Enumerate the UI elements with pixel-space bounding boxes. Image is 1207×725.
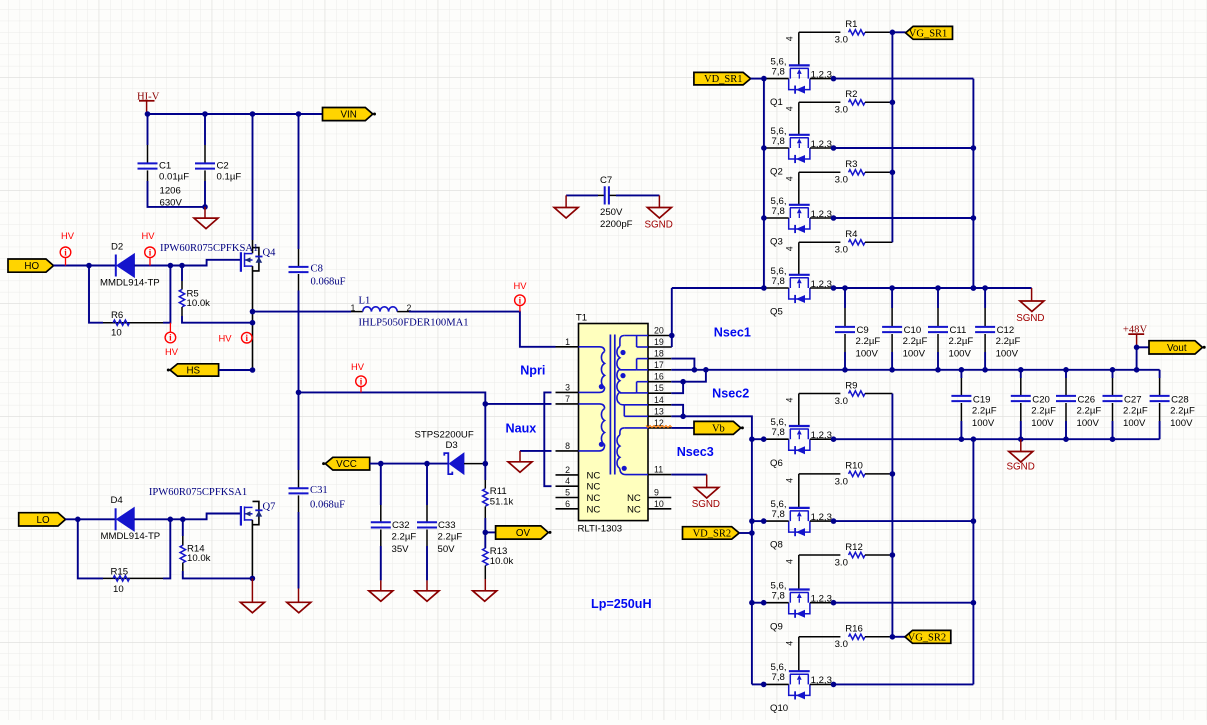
transistor Q2 bbox=[764, 126, 834, 178]
node Q7 gate junctions bbox=[168, 517, 186, 523]
wire Q3 gate pin bbox=[785, 172, 799, 205]
svg-text:4: 4 bbox=[785, 478, 795, 483]
svg-text:NC: NC bbox=[587, 482, 601, 493]
capacitor C31 bbox=[289, 392, 346, 588]
ground on T1 pin8 bbox=[508, 451, 532, 472]
wire VG_SR1 gate bus bbox=[891, 32, 893, 242]
probe HV on pin3 wire bbox=[351, 361, 366, 392]
svg-text:10.0k: 10.0k bbox=[187, 553, 211, 564]
resistor R6 bbox=[89, 266, 170, 339]
capacitor C27 bbox=[1103, 370, 1148, 439]
svg-text:LO: LO bbox=[37, 515, 50, 526]
transistor Q6 bbox=[764, 417, 834, 469]
ground left of C7 bbox=[554, 195, 578, 218]
node SW junctions bbox=[250, 309, 256, 373]
svg-text:0.1µF: 0.1µF bbox=[217, 172, 242, 183]
wire D4 to Q7 gate bbox=[134, 514, 241, 520]
ground below C31 bbox=[287, 589, 311, 613]
svg-text:4: 4 bbox=[565, 476, 570, 486]
wire SW to L1 bbox=[253, 311, 352, 313]
svg-text:2.2µF: 2.2µF bbox=[392, 531, 417, 542]
probe HV on L1 wire bbox=[514, 280, 528, 312]
capacitor C10 bbox=[882, 288, 927, 370]
svg-text:D3: D3 bbox=[446, 440, 458, 451]
svg-text:Q8: Q8 bbox=[770, 540, 783, 551]
svg-text:3: 3 bbox=[565, 382, 570, 392]
svg-text:10: 10 bbox=[654, 499, 664, 509]
T1 pins left bbox=[556, 337, 579, 509]
wire Q5 drain to pin20 bbox=[672, 287, 764, 289]
svg-text:SGND: SGND bbox=[645, 220, 673, 231]
port OV bbox=[485, 526, 551, 539]
node VD_SR2 bus junctions bbox=[749, 436, 755, 605]
wire Q8 gate pin bbox=[785, 474, 799, 508]
capacitor C2 bbox=[195, 114, 241, 207]
svg-text:STPS2200UF: STPS2200UF bbox=[415, 429, 474, 440]
resistor R10 bbox=[799, 461, 893, 488]
svg-text:HV: HV bbox=[142, 230, 156, 241]
capacitor C32 bbox=[371, 464, 417, 581]
svg-text:7,8: 7,8 bbox=[772, 276, 785, 287]
port VCC bbox=[322, 457, 370, 470]
wire Q3 source bbox=[834, 217, 974, 219]
svg-text:100V: 100V bbox=[996, 348, 1019, 359]
svg-text:1,2,3: 1,2,3 bbox=[811, 512, 832, 523]
svg-text:1,2,3: 1,2,3 bbox=[811, 279, 832, 290]
wire Q2 gate pin bbox=[785, 102, 799, 135]
node D3 anode junction bbox=[483, 461, 489, 467]
svg-text:9: 9 bbox=[654, 488, 659, 498]
svg-text:C19: C19 bbox=[973, 395, 991, 406]
wire Q1 gate pin bbox=[785, 32, 799, 65]
ground below C33 bbox=[415, 580, 439, 601]
wire pin13 to VD_SR2 bus bbox=[671, 416, 752, 684]
svg-text:Q10: Q10 bbox=[770, 703, 788, 714]
svg-text:R2: R2 bbox=[845, 89, 857, 100]
svg-text:19: 19 bbox=[654, 337, 664, 347]
svg-text:VIN: VIN bbox=[340, 109, 356, 120]
svg-text:HV: HV bbox=[165, 346, 179, 357]
svg-text:C8: C8 bbox=[311, 264, 323, 275]
svg-text:NC: NC bbox=[627, 493, 641, 504]
port VG_SR1 bbox=[892, 26, 952, 39]
svg-text:HO: HO bbox=[24, 261, 39, 272]
node LO junction bbox=[75, 517, 81, 523]
svg-text:Q1: Q1 bbox=[770, 97, 783, 108]
svg-text:C32: C32 bbox=[392, 520, 410, 531]
svg-text:10: 10 bbox=[111, 327, 122, 338]
svg-text:100V: 100V bbox=[1077, 418, 1100, 429]
svg-text:3.0: 3.0 bbox=[835, 105, 848, 116]
wire VG_SR2 gate bus bbox=[891, 394, 893, 637]
wire D3 to R11 column bbox=[484, 404, 486, 480]
svg-text:HS: HS bbox=[186, 365, 200, 376]
svg-text:5: 5 bbox=[565, 488, 570, 498]
transformer T1 body bbox=[576, 312, 648, 534]
wire HO to D2 bbox=[54, 265, 116, 267]
svg-text:SGND: SGND bbox=[1007, 462, 1035, 473]
wire Q5 gate pin bbox=[785, 242, 799, 274]
port VG_SR2 bbox=[892, 630, 950, 643]
svg-text:RLTI-1303: RLTI-1303 bbox=[578, 523, 623, 534]
resistor R9 bbox=[799, 380, 893, 407]
svg-text:Lp=250uH: Lp=250uH bbox=[591, 597, 652, 611]
capacitor C12 bbox=[975, 288, 1020, 370]
svg-text:1: 1 bbox=[565, 337, 570, 347]
port LO bbox=[19, 513, 66, 526]
port VD_SR2 bbox=[683, 527, 752, 540]
svg-text:Vb: Vb bbox=[712, 423, 725, 434]
svg-text:C20: C20 bbox=[1032, 395, 1050, 406]
wire SGND rail top bbox=[834, 287, 1032, 289]
svg-text:2.2µF: 2.2µF bbox=[903, 336, 928, 347]
svg-text:7,8: 7,8 bbox=[772, 206, 785, 217]
svg-text:C12: C12 bbox=[997, 325, 1015, 336]
svg-text:D2: D2 bbox=[111, 241, 123, 252]
capacitor C26 bbox=[1056, 370, 1101, 439]
node Q7 source junction bbox=[250, 576, 256, 582]
ground below Q7 bbox=[240, 578, 264, 612]
svg-text:VCC: VCC bbox=[336, 459, 357, 470]
wire Q6 gate pin bbox=[785, 394, 799, 427]
svg-text:Q4: Q4 bbox=[263, 248, 277, 259]
svg-text:100V: 100V bbox=[1170, 418, 1193, 429]
svg-text:4: 4 bbox=[785, 641, 795, 646]
svg-text:0.068uF: 0.068uF bbox=[310, 500, 345, 511]
node HO junction bbox=[86, 263, 92, 269]
svg-text:Q5: Q5 bbox=[770, 307, 783, 318]
diode D3 bbox=[415, 429, 486, 474]
svg-text:7,8: 7,8 bbox=[772, 672, 785, 683]
node C1/C2 gnd junction bbox=[202, 204, 208, 210]
svg-text:IHLP5050FDER100MA1: IHLP5050FDER100MA1 bbox=[359, 317, 469, 328]
svg-text:MMDL914-TP: MMDL914-TP bbox=[101, 531, 161, 542]
wire drain stubs bottom bank bbox=[752, 439, 764, 684]
transistor Q5 bbox=[764, 266, 834, 318]
transistor Q7 bbox=[149, 487, 276, 579]
wire L1 to T1 pin1 bbox=[409, 312, 556, 347]
wire VD_SR1 bus bbox=[763, 79, 765, 288]
capacitor C33 bbox=[417, 464, 462, 581]
resistor R2 bbox=[799, 89, 893, 116]
svg-text:IPW60R075CPFKSA1: IPW60R075CPFKSA1 bbox=[149, 487, 247, 498]
wire T1 pin11 to SGND bbox=[671, 474, 706, 476]
svg-text:3.0: 3.0 bbox=[835, 245, 848, 256]
svg-text:Nsec2: Nsec2 bbox=[712, 386, 749, 400]
T1 winding Nsec3 bbox=[617, 428, 648, 475]
wire HV net to T1 pin7 bbox=[299, 392, 486, 404]
node +48V rail junctions bbox=[692, 367, 1140, 373]
svg-text:VD_SR2: VD_SR2 bbox=[693, 528, 732, 539]
svg-text:VD_SR1: VD_SR1 bbox=[704, 74, 743, 85]
node OV junction bbox=[483, 530, 489, 536]
port Vb bbox=[671, 421, 744, 434]
wire pin7 branch bbox=[485, 403, 551, 405]
svg-text:18: 18 bbox=[654, 349, 664, 359]
svg-text:2.2µF: 2.2µF bbox=[949, 336, 974, 347]
svg-text:Vout: Vout bbox=[1167, 343, 1187, 354]
svg-text:100V: 100V bbox=[1031, 418, 1054, 429]
wire Q1 source bbox=[834, 78, 974, 80]
svg-text:C10: C10 bbox=[904, 325, 922, 336]
T1 pins right bbox=[648, 326, 671, 509]
wire Q9 gate pin bbox=[785, 555, 799, 590]
svg-text:Npri: Npri bbox=[520, 363, 545, 377]
wire Q8 source bbox=[834, 520, 974, 522]
svg-text:C33: C33 bbox=[438, 520, 456, 531]
resistor R5 bbox=[179, 266, 252, 323]
wire Q2 source bbox=[834, 147, 974, 149]
svg-text:3.0: 3.0 bbox=[835, 35, 848, 46]
svg-text:35V: 35V bbox=[392, 544, 410, 555]
svg-text:3.0: 3.0 bbox=[835, 396, 848, 407]
wire VIN rail bbox=[147, 113, 323, 115]
port VD_SR1 bbox=[694, 72, 764, 85]
port VIN bbox=[323, 108, 377, 121]
probe HV on R6 node bbox=[165, 323, 179, 358]
wire HS to SW node bbox=[219, 369, 253, 371]
node bottom rail junctions bbox=[831, 436, 1116, 442]
svg-text:HV: HV bbox=[61, 230, 75, 241]
power port +48V bbox=[1123, 324, 1148, 347]
node Vout junction bbox=[1134, 345, 1140, 351]
svg-text:14: 14 bbox=[654, 395, 664, 405]
svg-text:HV: HV bbox=[514, 280, 528, 291]
capacitor C28 bbox=[1150, 370, 1195, 439]
node C8/HV junction bbox=[296, 390, 302, 396]
error marker pin12 bbox=[646, 426, 672, 428]
capacitor C11 bbox=[928, 288, 973, 370]
node source pin junctions top bank bbox=[831, 76, 837, 291]
svg-text:100V: 100V bbox=[856, 348, 879, 359]
svg-text:SGND: SGND bbox=[692, 499, 720, 510]
port HO bbox=[8, 259, 54, 272]
svg-text:R15: R15 bbox=[111, 566, 129, 577]
svg-text:SGND: SGND bbox=[1016, 313, 1044, 324]
ground SGND bottom rail bbox=[1007, 439, 1035, 472]
svg-text:MMDL914-TP: MMDL914-TP bbox=[100, 278, 160, 289]
inductor L1 bbox=[351, 296, 469, 329]
svg-text:100V: 100V bbox=[1123, 418, 1146, 429]
svg-text:NC: NC bbox=[587, 470, 601, 481]
svg-text:0.01µF: 0.01µF bbox=[159, 172, 189, 183]
svg-text:20: 20 bbox=[654, 326, 664, 336]
svg-text:R1: R1 bbox=[845, 19, 857, 30]
transistor Q4 bbox=[160, 114, 276, 370]
svg-text:2.2µF: 2.2µF bbox=[438, 531, 463, 542]
svg-text:7: 7 bbox=[565, 394, 570, 404]
svg-text:7,8: 7,8 bbox=[772, 591, 785, 602]
svg-text:50V: 50V bbox=[438, 544, 456, 555]
svg-text:HV: HV bbox=[219, 333, 233, 344]
svg-text:4: 4 bbox=[785, 398, 795, 403]
node drain pin junctions bottom bank bbox=[761, 436, 767, 687]
svg-text:R6: R6 bbox=[111, 310, 123, 321]
T1 winding Nsec1/Nsec2 bbox=[617, 336, 648, 417]
svg-text:13: 13 bbox=[654, 406, 664, 416]
ground below R13 bbox=[473, 579, 497, 601]
wire LO to D4 bbox=[66, 518, 116, 520]
node D3/pin7 junction bbox=[483, 401, 489, 407]
svg-text:2.2µF: 2.2µF bbox=[1170, 405, 1195, 416]
svg-text:1,2,3: 1,2,3 bbox=[811, 675, 832, 686]
capacitor C8 bbox=[289, 114, 346, 392]
svg-text:16: 16 bbox=[654, 372, 664, 382]
svg-text:0.068uF: 0.068uF bbox=[311, 277, 346, 288]
T1 winding Naux bbox=[579, 404, 605, 451]
wire Q9 source bbox=[834, 602, 974, 604]
diode D2 bbox=[100, 241, 160, 288]
svg-text:7,8: 7,8 bbox=[772, 66, 785, 77]
resistor R15 bbox=[78, 519, 171, 595]
wire VCC rail bbox=[370, 463, 449, 465]
svg-text:C2: C2 bbox=[217, 160, 229, 171]
svg-text:4: 4 bbox=[785, 246, 795, 251]
svg-text:2: 2 bbox=[565, 465, 570, 475]
svg-text:C27: C27 bbox=[1124, 395, 1142, 406]
svg-text:C11: C11 bbox=[950, 325, 967, 336]
svg-text:51.1k: 51.1k bbox=[490, 496, 514, 507]
node VCC junctions bbox=[378, 461, 430, 467]
svg-text:1,2,3: 1,2,3 bbox=[811, 139, 832, 150]
power port HI-V bbox=[137, 91, 160, 114]
svg-text:250V: 250V bbox=[600, 207, 623, 218]
svg-text:IPW60R075CPFKSA1: IPW60R075CPFKSA1 bbox=[160, 243, 258, 254]
transistor Q9 bbox=[764, 581, 834, 633]
svg-text:7,8: 7,8 bbox=[772, 427, 785, 438]
svg-text:R10: R10 bbox=[845, 461, 863, 472]
wire pin18 drop bbox=[671, 359, 694, 370]
svg-text:2.2µF: 2.2µF bbox=[856, 336, 881, 347]
svg-text:Q3: Q3 bbox=[770, 237, 783, 248]
probe HV on Q4 source bbox=[219, 332, 253, 343]
wire Q10 source bbox=[834, 683, 974, 685]
capacitor C19 bbox=[951, 370, 996, 439]
wire pin16/15 tie bbox=[671, 370, 706, 393]
svg-text:L1: L1 bbox=[359, 296, 371, 307]
svg-text:T1: T1 bbox=[576, 312, 587, 323]
transistor Q10 bbox=[764, 662, 834, 714]
svg-text:3.0: 3.0 bbox=[835, 175, 848, 186]
svg-text:NC: NC bbox=[587, 504, 601, 515]
svg-text:8: 8 bbox=[565, 441, 570, 451]
T1 NC labels bbox=[587, 470, 641, 515]
svg-text:10.0k: 10.0k bbox=[187, 298, 211, 309]
svg-text:Nsec3: Nsec3 bbox=[677, 445, 714, 459]
svg-text:4: 4 bbox=[785, 559, 795, 564]
svg-text:HV: HV bbox=[351, 361, 365, 372]
transistor Q3 bbox=[764, 196, 834, 248]
wire pins19/20 to Q5 drain bbox=[670, 288, 673, 336]
probe HV after D2 bbox=[142, 230, 156, 265]
svg-text:C31: C31 bbox=[310, 485, 328, 496]
svg-text:3.0: 3.0 bbox=[835, 557, 848, 568]
svg-text:D4: D4 bbox=[111, 495, 124, 506]
capacitor C9 bbox=[835, 288, 880, 370]
svg-text:7,8: 7,8 bbox=[772, 509, 785, 520]
svg-text:R12: R12 bbox=[845, 542, 863, 553]
svg-text:VG_SR1: VG_SR1 bbox=[909, 28, 948, 39]
T1 winding Npri bbox=[579, 347, 605, 393]
svg-text:R4: R4 bbox=[845, 229, 858, 240]
ground SGND on pin11 bbox=[692, 475, 720, 511]
wire source bus B2 bbox=[972, 439, 974, 684]
svg-text:Q6: Q6 bbox=[770, 458, 783, 469]
ground below C1/C2 bbox=[194, 207, 218, 229]
wire Q10 gate pin bbox=[785, 637, 799, 671]
node source junctions bottom bank bbox=[831, 518, 837, 687]
svg-text:2200pF: 2200pF bbox=[600, 219, 633, 230]
resistor R12 bbox=[799, 542, 893, 569]
svg-text:R3: R3 bbox=[845, 159, 857, 170]
svg-text:NC: NC bbox=[587, 493, 601, 504]
svg-text:2.2µF: 2.2µF bbox=[1123, 405, 1148, 416]
svg-text:2.2µF: 2.2µF bbox=[972, 405, 997, 416]
svg-text:C1: C1 bbox=[159, 160, 171, 171]
ground SGND right of C7 bbox=[645, 195, 673, 230]
svg-text:4: 4 bbox=[785, 36, 795, 41]
svg-text:3.0: 3.0 bbox=[835, 476, 848, 487]
svg-text:1206: 1206 bbox=[160, 185, 181, 196]
svg-text:Nsec1: Nsec1 bbox=[714, 326, 751, 340]
resistor R13 bbox=[483, 532, 514, 579]
svg-text:17: 17 bbox=[654, 360, 664, 370]
svg-text:100V: 100V bbox=[949, 348, 972, 359]
svg-text:630V: 630V bbox=[160, 197, 183, 208]
wire source bus B1 bbox=[972, 79, 974, 288]
svg-text:100V: 100V bbox=[972, 418, 995, 429]
svg-text:2.2µF: 2.2µF bbox=[1077, 405, 1102, 416]
capacitor C20 bbox=[1011, 370, 1056, 439]
svg-text:Naux: Naux bbox=[506, 421, 537, 435]
svg-text:OV: OV bbox=[516, 528, 531, 539]
svg-text:1,2,3: 1,2,3 bbox=[811, 209, 832, 220]
svg-text:R9: R9 bbox=[845, 380, 857, 391]
ground SGND top rail bbox=[1016, 288, 1044, 324]
diode D4 bbox=[101, 495, 161, 542]
transistor Q1 bbox=[764, 56, 834, 108]
ground below C32 bbox=[369, 580, 393, 601]
wire pin14/13 tie bbox=[671, 405, 686, 419]
resistor R11 bbox=[483, 480, 514, 532]
svg-text:6: 6 bbox=[565, 499, 570, 509]
probe HV on HO wire bbox=[60, 230, 75, 265]
svg-text:VG_SR2: VG_SR2 bbox=[908, 632, 947, 643]
wire T1 pin8 to gnd bbox=[520, 450, 552, 452]
svg-text:1,2,3: 1,2,3 bbox=[811, 430, 832, 441]
wire Vout bbox=[1137, 347, 1149, 370]
resistor R14 bbox=[180, 519, 252, 578]
svg-text:2.2µF: 2.2µF bbox=[1031, 405, 1056, 416]
node B1 junctions bbox=[971, 145, 977, 291]
resistor R1 bbox=[799, 19, 893, 46]
node gate bus junctions bbox=[890, 30, 896, 176]
port Vout bbox=[1149, 341, 1206, 354]
svg-text:15: 15 bbox=[654, 383, 664, 393]
node gate bus 2 junctions bbox=[890, 471, 896, 639]
capacitor C1 bbox=[138, 114, 206, 208]
wire SGND rail bottom bbox=[834, 438, 1160, 440]
svg-text:10.0k: 10.0k bbox=[490, 556, 514, 567]
svg-text:R11: R11 bbox=[490, 486, 507, 497]
transistor Q8 bbox=[764, 499, 834, 551]
svg-text:100V: 100V bbox=[903, 348, 926, 359]
svg-text:3.0: 3.0 bbox=[835, 639, 848, 650]
svg-text:C28: C28 bbox=[1171, 395, 1189, 406]
svg-text:1,2,3: 1,2,3 bbox=[811, 594, 832, 605]
svg-text:Q7: Q7 bbox=[263, 501, 276, 512]
node pin20 junction bbox=[669, 333, 675, 339]
